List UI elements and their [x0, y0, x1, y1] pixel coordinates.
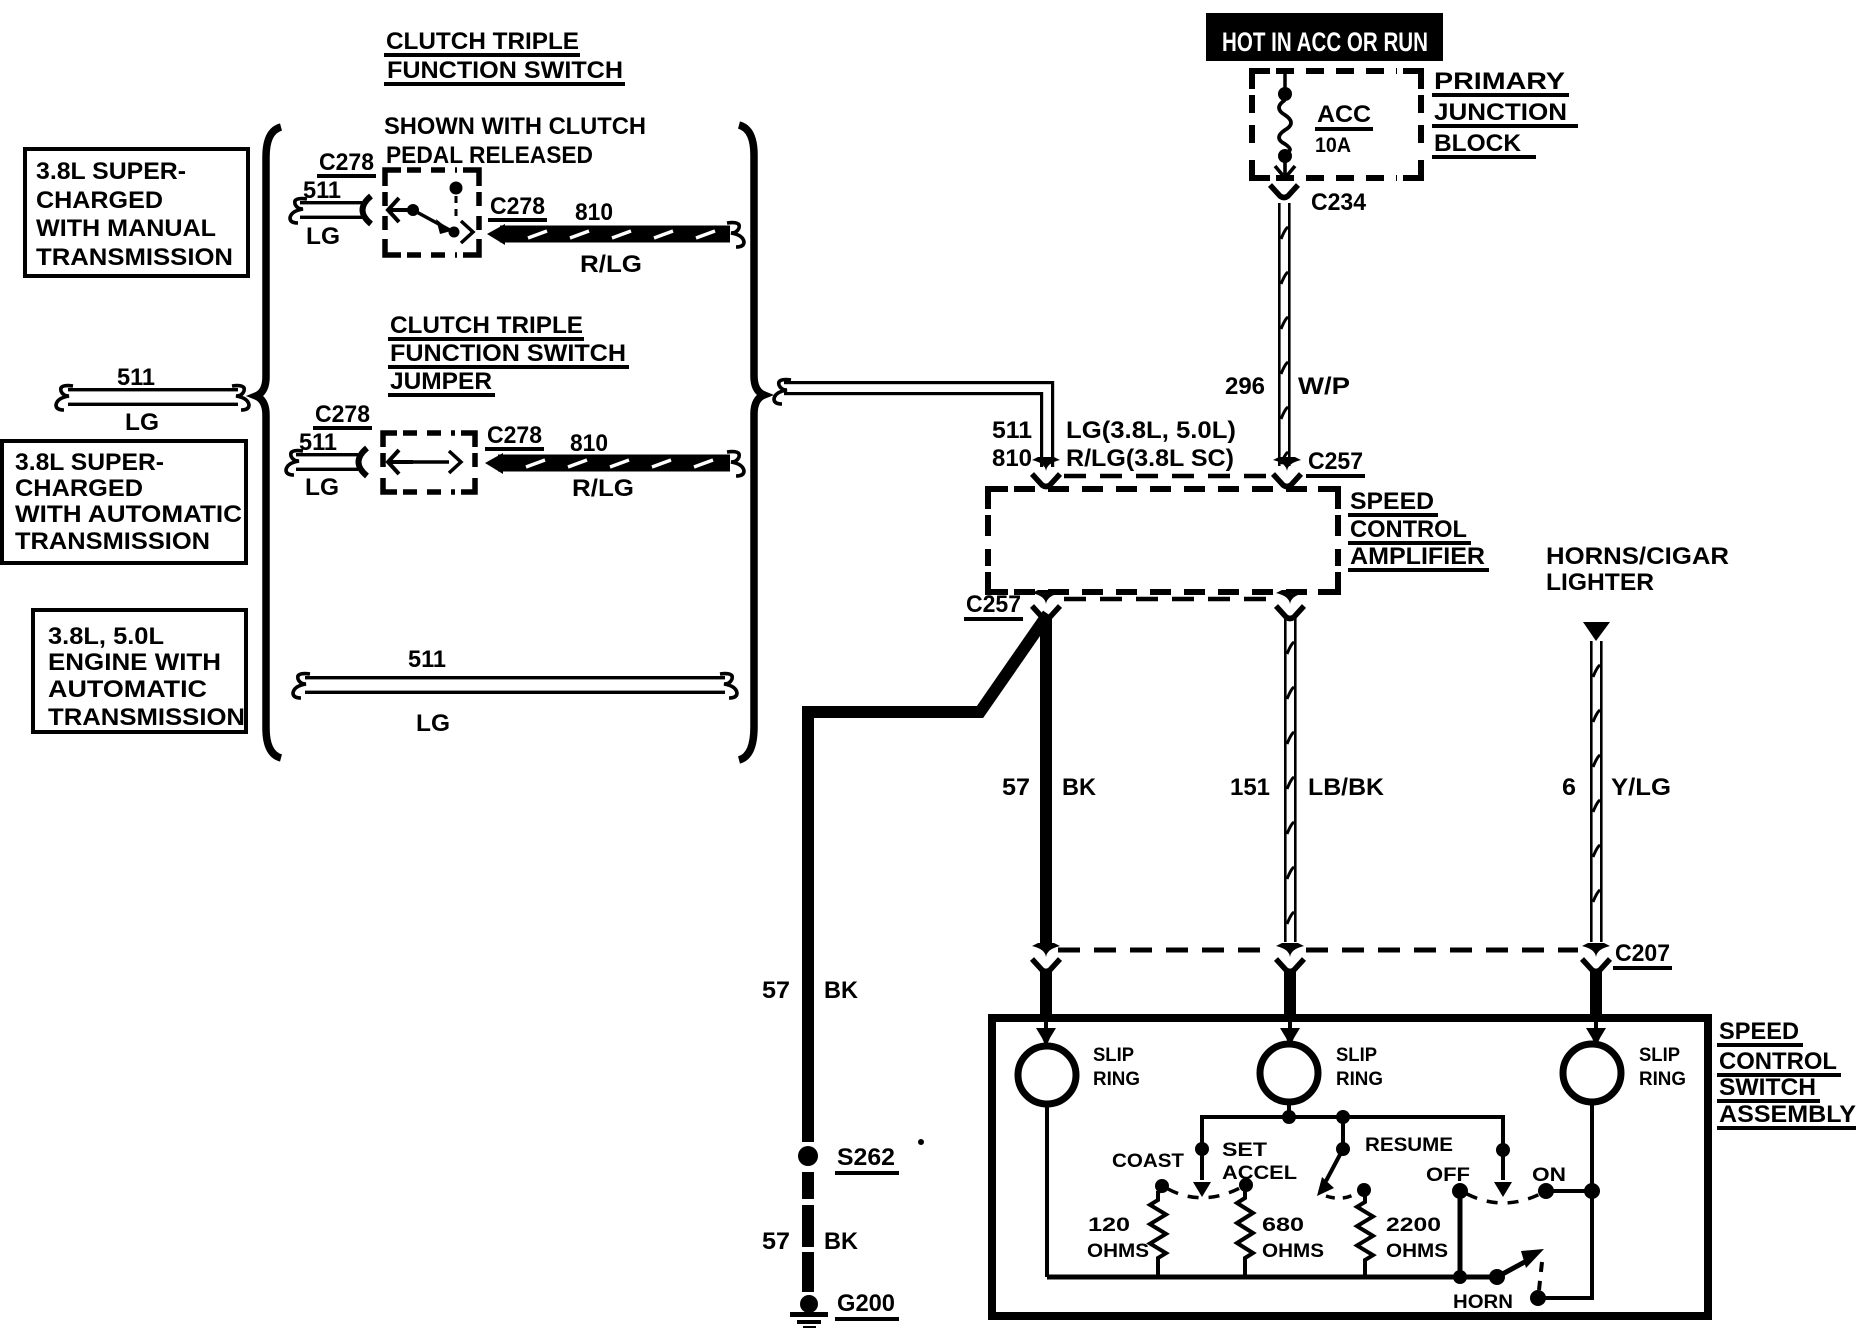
splice S262 — [798, 1146, 818, 1166]
svg-text:R/LG: R/LG — [580, 251, 642, 278]
slip ring 2 — [1260, 1044, 1318, 1102]
svg-text:3.8L SUPER-: 3.8L SUPER- — [15, 449, 164, 476]
svg-text:511: 511 — [408, 646, 446, 673]
ground G200 — [800, 1295, 818, 1313]
primary junction block (dashed box) — [1252, 71, 1421, 178]
svg-text:680: 680 — [1262, 1215, 1304, 1236]
on contact arm — [1496, 1143, 1510, 1157]
svg-text:SPEED: SPEED — [1350, 488, 1434, 515]
svg-text:C278: C278 — [487, 422, 542, 449]
svg-text:JUMPER: JUMPER — [390, 368, 492, 395]
wiper dashed coast-set — [1168, 1188, 1240, 1198]
svg-text:TRANSMISSION: TRANSMISSION — [48, 704, 245, 731]
svg-text:C234: C234 — [1311, 189, 1367, 216]
svg-text:151: 151 — [1230, 774, 1270, 801]
wire: slip ring 1 to ground rail — [1045, 1104, 1049, 1277]
svg-text:C257: C257 — [966, 591, 1021, 618]
svg-text:296: 296 — [1225, 373, 1265, 400]
wire: slip ring 2 to bus — [1287, 1102, 1291, 1117]
svg-text:2200: 2200 — [1386, 1215, 1441, 1236]
svg-text:CLUTCH TRIPLE: CLUTCH TRIPLE — [386, 28, 579, 55]
left brace — [256, 127, 281, 758]
slip ring 3 — [1563, 1044, 1621, 1102]
wire 151 LB/BK — [1284, 618, 1287, 942]
connector C207 — [1058, 948, 1272, 953]
wiper dashed off-on — [1467, 1194, 1540, 1203]
svg-text:CHARGED: CHARGED — [15, 475, 143, 502]
svg-text:RESUME: RESUME — [1365, 1135, 1453, 1156]
wiper dashed resume-2200 — [1326, 1192, 1358, 1198]
svg-text:BK: BK — [824, 977, 859, 1004]
stray mark — [918, 1139, 924, 1145]
svg-text:C278: C278 — [319, 149, 374, 176]
slip ring 1 — [1018, 1046, 1076, 1104]
svg-text:FUNCTION SWITCH: FUNCTION SWITCH — [390, 340, 626, 367]
resistor 680 ohms — [1239, 1178, 1253, 1192]
resistor 120 ohms — [1150, 1191, 1166, 1277]
svg-text:BLOCK: BLOCK — [1434, 130, 1522, 157]
wire 511/810 from brace to amplifier — [774, 380, 791, 404]
svg-text:SHOWN WITH CLUTCH: SHOWN WITH CLUTCH — [384, 113, 646, 140]
svg-text:OHMS: OHMS — [1087, 1241, 1149, 1262]
svg-text:BK: BK — [1062, 774, 1097, 801]
svg-text:SLIP: SLIP — [1336, 1045, 1377, 1066]
svg-text:AMPLIFIER: AMPLIFIER — [1350, 543, 1485, 570]
svg-text:RING: RING — [1639, 1069, 1686, 1090]
svg-text:SLIP: SLIP — [1093, 1045, 1134, 1066]
svg-text:511: 511 — [303, 177, 341, 204]
svg-text:HOT IN ACC OR RUN: HOT IN ACC OR RUN — [1222, 27, 1428, 57]
svg-text:LB/BK: LB/BK — [1308, 774, 1385, 801]
wire 6 Y/LG — [1583, 622, 1610, 641]
box: 3.8L supercharged automatic transmission — [2, 441, 246, 563]
fuse ACC 10A — [1283, 71, 1287, 88]
svg-text:S262: S262 — [837, 1144, 895, 1171]
wire 57 BK to switch assembly — [1040, 616, 1052, 944]
right brace — [739, 125, 764, 760]
jumper wire — [388, 450, 413, 474]
wire on to slip ring 3 — [1546, 1189, 1592, 1193]
svg-text:W/P: W/P — [1298, 373, 1350, 400]
power tag: HOT IN ACC OR RUN — [1206, 13, 1443, 61]
ground rail — [1047, 1275, 1497, 1280]
svg-text:WITH AUTOMATIC: WITH AUTOMATIC — [15, 501, 242, 528]
svg-text:COAST: COAST — [1112, 1151, 1184, 1172]
svg-text:LIGHTER: LIGHTER — [1546, 569, 1654, 596]
svg-text:FUNCTION SWITCH: FUNCTION SWITCH — [387, 57, 623, 84]
svg-text:3.8L, 5.0L: 3.8L, 5.0L — [48, 623, 164, 650]
horn switch — [1453, 1270, 1467, 1284]
switch contacts — [388, 198, 413, 222]
svg-text:57: 57 — [762, 1228, 790, 1255]
connector C234 — [1270, 185, 1298, 198]
svg-text:WITH MANUAL: WITH MANUAL — [36, 215, 216, 242]
svg-text:511: 511 — [299, 429, 337, 456]
svg-text:TRANSMISSION: TRANSMISSION — [15, 528, 210, 555]
clutch switch jumper (dashed box) — [383, 433, 475, 492]
svg-text:RING: RING — [1093, 1069, 1140, 1090]
svg-text:AUTOMATIC: AUTOMATIC — [48, 676, 207, 703]
svg-text:PRIMARY: PRIMARY — [1434, 68, 1565, 95]
svg-text:R/LG(3.8L SC): R/LG(3.8L SC) — [1066, 445, 1234, 472]
svg-text:ASSEMBLY: ASSEMBLY — [1719, 1101, 1856, 1128]
svg-text:OFF: OFF — [1426, 1165, 1470, 1186]
svg-text:LG: LG — [125, 409, 159, 436]
svg-text:SLIP: SLIP — [1639, 1045, 1680, 1066]
box: 3.8L 5.0L engine automatic transmission — [33, 610, 246, 732]
svg-text:810: 810 — [575, 199, 613, 226]
resistor 2200 ohms — [1357, 1183, 1371, 1197]
svg-text:PEDAL RELEASED: PEDAL RELEASED — [386, 142, 593, 169]
wire 57 BK dashed to ground — [802, 1172, 814, 1199]
svg-text:OHMS: OHMS — [1262, 1241, 1324, 1262]
svg-text:LG(3.8L, 5.0L): LG(3.8L, 5.0L) — [1066, 417, 1236, 444]
svg-text:C278: C278 — [490, 193, 545, 220]
node: slip ring 2 junction — [1282, 1110, 1296, 1124]
svg-text:ENGINE WITH: ENGINE WITH — [48, 649, 221, 676]
speed control switch assembly (box) — [992, 1018, 1708, 1316]
svg-text:SET: SET — [1222, 1140, 1267, 1161]
svg-text:BK: BK — [824, 1228, 859, 1255]
svg-text:CLUTCH TRIPLE: CLUTCH TRIPLE — [390, 312, 583, 339]
set/accel contact arm — [1195, 1142, 1209, 1156]
svg-text:HORN: HORN — [1453, 1292, 1513, 1313]
svg-text:R/LG: R/LG — [572, 475, 634, 502]
clutch triple function switch (dashed box) — [385, 170, 479, 255]
svg-text:810: 810 — [570, 430, 608, 457]
svg-text:10A: 10A — [1315, 134, 1351, 157]
svg-text:ACC: ACC — [1317, 101, 1371, 128]
svg-text:C257: C257 — [1308, 448, 1363, 475]
speed control amplifier (dashed box) — [988, 489, 1338, 592]
svg-text:6: 6 — [1562, 774, 1576, 801]
svg-text:TRANSMISSION: TRANSMISSION — [36, 244, 233, 271]
node: resume branch junction — [1336, 1110, 1350, 1124]
svg-text:57: 57 — [762, 977, 790, 1004]
svg-text:OHMS: OHMS — [1386, 1241, 1448, 1262]
svg-text:Y/LG: Y/LG — [1611, 774, 1671, 801]
connector C257 bottom — [1032, 590, 1060, 604]
svg-text:57: 57 — [1002, 774, 1030, 801]
svg-text:SPEED: SPEED — [1719, 1018, 1799, 1045]
svg-text:ACCEL: ACCEL — [1222, 1163, 1297, 1184]
svg-text:JUNCTION: JUNCTION — [1434, 99, 1567, 126]
svg-text:CONTROL: CONTROL — [1350, 516, 1467, 543]
svg-text:810: 810 — [992, 445, 1032, 472]
svg-text:C207: C207 — [1615, 940, 1670, 967]
svg-text:RING: RING — [1336, 1069, 1383, 1090]
svg-text:LG: LG — [306, 223, 340, 250]
svg-text:511: 511 — [117, 364, 155, 391]
svg-text:CONTROL: CONTROL — [1719, 1048, 1837, 1075]
svg-text:CHARGED: CHARGED — [36, 187, 163, 214]
svg-text:120: 120 — [1088, 1215, 1130, 1236]
svg-text:G200: G200 — [837, 1290, 895, 1317]
svg-text:ON: ON — [1532, 1165, 1566, 1186]
svg-text:LG: LG — [416, 710, 450, 737]
svg-text:3.8L SUPER-: 3.8L SUPER- — [36, 158, 186, 185]
svg-text:HORNS/CIGAR: HORNS/CIGAR — [1546, 543, 1729, 570]
wire slip ring 3 down to horn contact — [1544, 1104, 1592, 1298]
connector C257 top — [1032, 457, 1060, 471]
svg-text:C278: C278 — [315, 401, 370, 428]
wire 296 W/P — [1278, 203, 1281, 466]
svg-text:SWITCH: SWITCH — [1719, 1074, 1816, 1101]
bus wire — [1202, 1117, 1503, 1160]
svg-text:LG: LG — [305, 474, 339, 501]
box: 3.8L supercharged manual transmission — [25, 149, 248, 276]
svg-text:511: 511 — [992, 417, 1032, 444]
wire 57 BK to ground — [808, 614, 1048, 1142]
